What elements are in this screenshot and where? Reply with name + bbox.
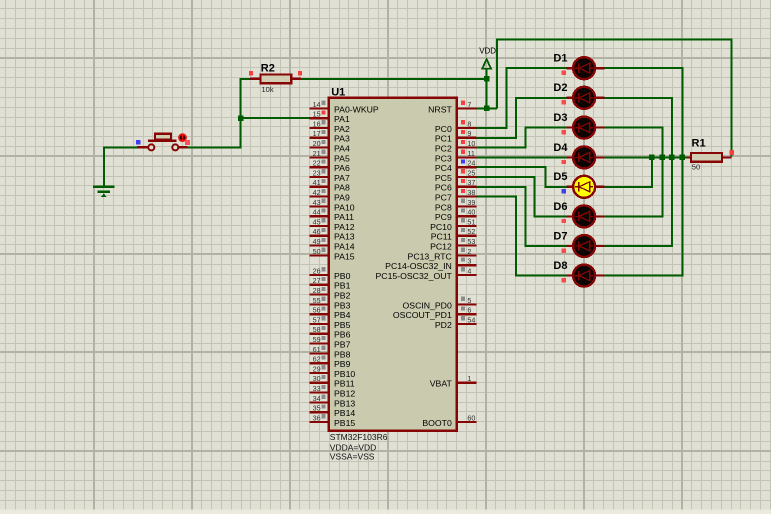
wire: R2 right to VDD node <box>301 78 487 80</box>
pin 5 (OSCIN_PD0) <box>403 296 477 311</box>
svg-text:PC0: PC0 <box>435 124 452 134</box>
svg-text:24: 24 <box>467 159 475 168</box>
svg-text:9: 9 <box>467 129 471 138</box>
svg-text:59: 59 <box>313 335 321 344</box>
wire: LED D6 cathode to bus <box>605 157 663 216</box>
node marker button right (high) <box>185 140 190 145</box>
wire: PC2 pin to LED D3 anode <box>476 128 566 148</box>
bus junction 3 <box>669 155 675 161</box>
svg-text:10k: 10k <box>262 85 274 94</box>
wire: LED D8 cathode to bus <box>605 157 683 275</box>
svg-text:61: 61 <box>313 345 321 354</box>
wire: PC3 pin to LED D4 anode <box>476 156 566 158</box>
pin 2 (PC13_RTC) <box>408 247 477 261</box>
pin 51 (PC10) <box>430 217 476 232</box>
svg-text:PC14-OSC32_IN: PC14-OSC32_IN <box>385 261 452 271</box>
svg-text:16: 16 <box>313 119 321 128</box>
pin 15 (PA1) <box>310 110 350 125</box>
push button <box>137 134 188 151</box>
svg-text:26: 26 <box>313 266 321 275</box>
node A junction <box>238 115 244 121</box>
svg-text:22: 22 <box>313 159 321 168</box>
svg-text:54: 54 <box>467 315 475 324</box>
pin 16 (PA2) <box>310 119 350 133</box>
node marker D2 anode <box>562 100 566 104</box>
svg-text:R2: R2 <box>261 62 275 74</box>
LED D3 <box>566 117 604 139</box>
pin 4 (PC15-OSC32_OUT) <box>376 266 477 281</box>
svg-text:36: 36 <box>313 413 321 422</box>
svg-text:PC6: PC6 <box>435 183 452 193</box>
svg-text:PB10: PB10 <box>334 369 355 379</box>
svg-text:6: 6 <box>467 306 471 315</box>
wire: PC0 pin to LED D1 anode <box>476 68 566 128</box>
pin 38 (PC7) <box>435 188 477 203</box>
wire: ground to button left <box>104 147 137 187</box>
pin 9 (PC1) <box>435 129 477 144</box>
svg-text:28: 28 <box>313 286 321 295</box>
LED D7 <box>566 235 604 257</box>
svg-text:D3: D3 <box>553 112 567 124</box>
pin 39 (PC8) <box>435 198 477 213</box>
pin 27 (PB1) <box>310 276 351 291</box>
svg-text:57: 57 <box>313 315 321 324</box>
svg-text:37: 37 <box>467 178 475 187</box>
label D4 <box>553 142 568 154</box>
svg-text:58: 58 <box>313 325 321 334</box>
svg-text:53: 53 <box>467 237 475 246</box>
svg-text:55: 55 <box>313 296 321 305</box>
svg-text:39: 39 <box>467 198 475 207</box>
pin 50 (PA15) <box>310 247 355 261</box>
wire: LED D3 cathode to bus <box>605 128 663 158</box>
svg-text:VDD: VDD <box>479 47 496 56</box>
svg-text:51: 51 <box>467 217 475 226</box>
pin 61 (PB8) <box>310 345 351 360</box>
pin 58 (PB6) <box>310 325 351 340</box>
bus junction 1 <box>649 155 655 161</box>
svg-text:3: 3 <box>467 257 471 266</box>
pin 42 (PA9) <box>310 188 350 203</box>
svg-text:8: 8 <box>467 119 471 128</box>
wire: PC5 pin to LED D6 anode <box>476 177 566 216</box>
svg-text:PB7: PB7 <box>334 340 351 350</box>
svg-text:4: 4 <box>467 266 471 275</box>
svg-text:PA8: PA8 <box>334 183 350 193</box>
svg-text:7: 7 <box>467 100 471 109</box>
pin 21 (PA5) <box>310 149 350 164</box>
pin 53 (PC12) <box>430 237 476 252</box>
svg-text:23: 23 <box>313 168 321 177</box>
label D1 <box>553 53 567 65</box>
label D8 <box>553 260 567 272</box>
wire: LED D5 cathode to bus <box>605 157 652 186</box>
svg-text:PA7: PA7 <box>334 173 350 183</box>
pin 29 (PB10) <box>310 364 356 379</box>
wire: LED cathode bus D4 row to R1 left <box>605 156 687 158</box>
svg-text:D8: D8 <box>553 260 567 272</box>
pin 59 (PB7) <box>310 335 351 350</box>
pin 8 (PC0) <box>435 119 477 133</box>
svg-text:PB5: PB5 <box>334 320 351 330</box>
svg-text:29: 29 <box>313 364 321 373</box>
svg-text:42: 42 <box>313 188 321 197</box>
svg-text:PA1: PA1 <box>334 114 350 124</box>
svg-text:PC5: PC5 <box>435 173 452 183</box>
svg-text:33: 33 <box>313 384 321 393</box>
svg-text:PB4: PB4 <box>334 310 351 320</box>
node marker D7 anode <box>562 248 566 252</box>
pin 54 (PD2) <box>435 315 477 330</box>
pin 57 (PB5) <box>310 315 351 330</box>
svg-text:D2: D2 <box>553 82 567 94</box>
value 10k <box>262 85 274 94</box>
LED D8 <box>566 265 604 287</box>
node marker D1 anode <box>562 71 566 75</box>
value 50 <box>692 162 700 171</box>
chip sublabel VDDA=VDD <box>330 443 377 453</box>
svg-text:PA12: PA12 <box>334 222 355 232</box>
svg-text:2: 2 <box>467 247 471 256</box>
svg-text:PB2: PB2 <box>334 291 351 301</box>
svg-text:PA10: PA10 <box>334 202 355 212</box>
label D5 <box>553 171 567 183</box>
svg-text:30: 30 <box>313 374 321 383</box>
pin 62 (PB9) <box>310 355 351 370</box>
svg-text:PB12: PB12 <box>334 389 355 399</box>
svg-text:PA11: PA11 <box>334 212 354 222</box>
button actuator <box>178 133 187 142</box>
svg-text:D7: D7 <box>553 230 567 242</box>
svg-text:PC2: PC2 <box>435 144 452 154</box>
wire: NRST pin to VDD net and top rail to R1 right <box>476 39 731 156</box>
svg-text:BOOT0: BOOT0 <box>422 418 452 428</box>
svg-text:PA2: PA2 <box>334 124 350 134</box>
wire: PC1 pin to LED D2 anode <box>476 98 566 138</box>
wire: PC6 pin to LED D7 anode <box>476 187 566 246</box>
pin 60 (BOOT0) <box>422 413 476 428</box>
junction VDD/R2 <box>484 76 490 82</box>
svg-text:38: 38 <box>467 188 475 197</box>
pin 33 (PB12) <box>310 384 356 399</box>
svg-text:PB6: PB6 <box>334 330 351 340</box>
node marker R2 pin1 <box>249 71 253 75</box>
svg-text:PA14: PA14 <box>334 242 355 252</box>
svg-text:20: 20 <box>313 139 321 148</box>
svg-text:PB9: PB9 <box>334 359 351 369</box>
label U1 <box>331 86 345 98</box>
LED D6 <box>566 205 604 227</box>
chip sublabel STM32F103R6 <box>330 432 388 442</box>
wire: node A to pin 15 PA1 <box>241 117 310 119</box>
svg-text:PB14: PB14 <box>334 408 355 418</box>
wire: LED D1 cathode to bus <box>605 68 683 157</box>
pin 41 (PA8) <box>310 178 350 193</box>
svg-text:45: 45 <box>313 217 321 226</box>
svg-text:NRST: NRST <box>428 104 452 114</box>
pin 6 (OSCOUT_PD1) <box>393 306 477 321</box>
pin 40 (PC9) <box>435 208 477 223</box>
svg-text:56: 56 <box>313 306 321 315</box>
svg-text:43: 43 <box>313 198 321 207</box>
pin 26 (PB0) <box>310 266 351 281</box>
label R1 <box>692 137 706 149</box>
svg-text:PD2: PD2 <box>435 320 452 330</box>
svg-text:15: 15 <box>313 110 321 119</box>
pin 46 (PA13) <box>310 227 355 242</box>
pin 25 (PC5) <box>435 168 477 183</box>
LED D2 <box>566 87 604 109</box>
svg-text:PC11: PC11 <box>431 232 452 242</box>
svg-text:PB3: PB3 <box>334 300 351 310</box>
svg-text:D1: D1 <box>553 53 567 65</box>
svg-text:VBAT: VBAT <box>430 379 453 389</box>
svg-text:PC13_RTC: PC13_RTC <box>408 251 452 261</box>
op: microcontroller U1 body <box>329 98 457 431</box>
svg-text:PA15: PA15 <box>334 251 355 261</box>
bus junction 2 <box>660 155 666 161</box>
svg-text:PC7: PC7 <box>435 193 452 203</box>
ground <box>93 187 115 197</box>
LED D4 <box>566 146 604 168</box>
pin 30 (PB11) <box>310 374 355 389</box>
node marker D3 anode <box>562 130 566 134</box>
svg-text:PC1: PC1 <box>435 134 452 144</box>
svg-text:OSCOUT_PD1: OSCOUT_PD1 <box>393 310 452 320</box>
svg-text:10: 10 <box>467 139 475 148</box>
label D6 <box>553 201 567 213</box>
resistor R2 <box>250 75 301 84</box>
svg-text:PA4: PA4 <box>334 144 350 154</box>
node marker button left (low) <box>136 140 141 145</box>
svg-text:PC10: PC10 <box>430 222 452 232</box>
svg-text:PC4: PC4 <box>435 163 452 173</box>
wire: LED D2 cathode to bus <box>605 98 672 158</box>
node marker D5 anode <box>562 189 566 193</box>
svg-text:D6: D6 <box>553 201 567 213</box>
svg-text:PA0-WKUP: PA0-WKUP <box>334 104 379 114</box>
svg-text:PA6: PA6 <box>334 163 350 173</box>
pin 55 (PB3) <box>310 296 351 311</box>
pin 10 (PC2) <box>435 139 477 154</box>
pin 43 (PA10) <box>310 198 355 213</box>
svg-text:46: 46 <box>313 227 321 236</box>
svg-text:PC15-OSC32_OUT: PC15-OSC32_OUT <box>376 271 453 281</box>
svg-text:50: 50 <box>313 247 321 256</box>
svg-text:PC8: PC8 <box>435 202 452 212</box>
pin 3 (PC14-OSC32_IN) <box>385 257 476 272</box>
junction NRST/VDD <box>484 106 490 112</box>
pin 37 (PC6) <box>435 178 477 193</box>
wire: button right to node A (R2 left / PA1) <box>187 79 250 148</box>
svg-text:PB15: PB15 <box>334 418 355 428</box>
svg-text:60: 60 <box>467 413 475 422</box>
svg-text:49: 49 <box>313 237 321 246</box>
pin 56 (PB4) <box>310 306 351 321</box>
svg-text:40: 40 <box>467 208 475 217</box>
pin 36 (PB15) <box>310 413 356 428</box>
pin 1 (VBAT) <box>430 374 477 389</box>
pin 44 (PA11) <box>310 208 355 223</box>
svg-text:11: 11 <box>467 149 474 158</box>
svg-text:STM32F103R6: STM32F103R6 <box>330 432 388 442</box>
svg-text:D5: D5 <box>553 171 567 183</box>
pin 49 (PA14) <box>310 237 355 252</box>
svg-text:25: 25 <box>467 168 475 177</box>
svg-text:44: 44 <box>313 208 321 217</box>
svg-text:R1: R1 <box>692 137 706 149</box>
LED D1 <box>566 57 604 79</box>
svg-text:17: 17 <box>313 129 321 138</box>
bus junction 4 <box>680 155 686 161</box>
pin 35 (PB14) <box>310 404 356 419</box>
node marker D8 anode <box>562 278 566 282</box>
svg-text:PC12: PC12 <box>430 242 452 252</box>
svg-text:PB11: PB11 <box>334 379 355 389</box>
svg-text:PB13: PB13 <box>334 398 355 408</box>
pin 20 (PA4) <box>310 139 350 154</box>
node marker D4 anode <box>562 160 566 164</box>
svg-text:PA9: PA9 <box>334 193 350 203</box>
svg-text:27: 27 <box>313 276 321 285</box>
pin 17 (PA3) <box>310 129 350 144</box>
pin 23 (PA7) <box>310 168 350 183</box>
svg-text:PA5: PA5 <box>334 153 350 163</box>
svg-text:D4: D4 <box>553 142 568 154</box>
svg-text:PB8: PB8 <box>334 349 351 359</box>
node marker R2 pin2 <box>298 71 302 75</box>
pin 45 (PA12) <box>310 217 355 232</box>
svg-text:52: 52 <box>467 227 475 236</box>
wire: LED D7 cathode to bus <box>605 157 672 246</box>
LED D5 <box>566 176 604 198</box>
node marker R1 pin2 (VDD net) <box>729 150 734 155</box>
pin 24 (PC4) <box>435 159 477 174</box>
svg-text:PC3: PC3 <box>435 153 452 163</box>
label D7 <box>553 230 567 242</box>
svg-text:OSCIN_PD0: OSCIN_PD0 <box>403 300 452 310</box>
svg-text:PB0: PB0 <box>334 271 351 281</box>
wire: VDD stem down to NRST node <box>486 69 488 109</box>
svg-text:PA13: PA13 <box>334 232 355 242</box>
power symbol VDD <box>479 47 496 69</box>
svg-text:62: 62 <box>313 355 321 364</box>
svg-text:U1: U1 <box>331 86 345 98</box>
label D3 <box>553 112 567 124</box>
svg-text:VSSA=VSS: VSSA=VSS <box>330 452 375 462</box>
svg-text:PB1: PB1 <box>334 281 351 291</box>
svg-text:50: 50 <box>692 162 700 171</box>
pin 34 (PB13) <box>310 394 356 409</box>
svg-text:PA3: PA3 <box>334 134 350 144</box>
pin 22 (PA6) <box>310 159 350 174</box>
label D2 <box>553 82 567 94</box>
chip sublabel VSSA=VSS <box>330 452 375 462</box>
node marker D6 anode <box>562 219 566 223</box>
pin 11 (PC3) <box>435 149 477 164</box>
wire: PC7 pin to LED D8 anode <box>476 197 566 276</box>
svg-text:1: 1 <box>467 374 471 383</box>
wire: PC4 pin to LED D5 anode <box>476 167 566 187</box>
pin 14 (PA0-WKUP) <box>310 100 379 115</box>
svg-text:34: 34 <box>313 394 321 403</box>
svg-text:35: 35 <box>313 404 321 413</box>
pin 7 (NRST) <box>428 100 476 115</box>
svg-text:14: 14 <box>313 100 321 109</box>
pin 28 (PB2) <box>310 286 351 301</box>
svg-text:41: 41 <box>313 178 321 187</box>
svg-text:5: 5 <box>467 296 471 305</box>
svg-text:PC9: PC9 <box>435 212 452 222</box>
label R2 <box>261 62 275 74</box>
svg-text:21: 21 <box>313 149 321 158</box>
pin 52 (PC11) <box>431 227 477 242</box>
resistor R1 <box>686 153 731 162</box>
